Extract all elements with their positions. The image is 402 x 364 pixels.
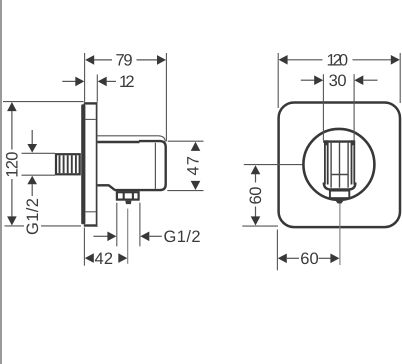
svg-text:30: 30: [329, 72, 347, 90]
svg-text:60: 60: [300, 250, 319, 268]
dimension 47 (vertical): [184, 142, 202, 190]
holder bottom bar: [324, 183, 356, 190]
extension line plate front (12 right): [96, 75, 98, 102]
outlet nut: [117, 192, 139, 200]
thread nipple G1/2: [56, 154, 80, 174]
47 extension lines: [167, 141, 203, 190]
G1/2 left dimension arrows: [27, 130, 37, 196]
extension line 79 right: [165, 53, 167, 142]
holder body bottom chamfer: [109, 185, 115, 190]
dimension 120 (right view): [279, 52, 400, 70]
svg-text:42: 42: [95, 250, 114, 268]
label 120 (rotated): [4, 150, 22, 180]
dimension 120 vertical line: [7, 102, 17, 226]
60 left extension lines: [242, 165, 302, 227]
svg-text:G1/2: G1/2: [24, 198, 42, 235]
dimension 79: [85, 52, 166, 70]
holder end cap inner line: [154, 143, 156, 189]
42 extension line from wall face: [83, 228, 85, 266]
wall plate inner lines: [85, 119, 95, 211]
holder centerline: [339, 204, 341, 265]
svg-text:120: 120: [327, 52, 349, 70]
holder body thin top outline: [98, 136, 166, 142]
dimension 42: [85, 250, 128, 268]
extension line plate top to 120 dim: [3, 101, 84, 103]
wall plate outline (side): [84, 102, 98, 227]
label G1/2 left (rotated): [24, 197, 42, 236]
outlet spigot nub: [125, 201, 131, 205]
dimension 30: [301, 72, 378, 90]
svg-text:G1/2: G1/2: [164, 228, 201, 246]
svg-text:60: 60: [247, 187, 265, 205]
wall plate back band: [81, 104, 85, 224]
60 bottom extension line: [276, 230, 278, 271]
page left border: [0, 0, 2, 364]
svg-text:79: 79: [116, 52, 133, 70]
holder body bottom near plate: [98, 184, 110, 186]
G1/2 right dimension: [93, 228, 200, 246]
thread nipple extension lines: [22, 153, 56, 175]
holder end cap: [115, 141, 166, 190]
extension line plate bottom to 120 dim: [5, 225, 82, 227]
outlet G1/2 extension lines: [117, 203, 140, 247]
holder body top edge: [98, 141, 140, 144]
dimension 12: [62, 73, 134, 91]
holder pedestal: [329, 191, 350, 199]
outlet centerline: [127, 209, 129, 264]
extension line wall face (79/12 left): [84, 53, 86, 102]
holder top bar: [323, 140, 355, 142]
escutcheon square: [279, 103, 400, 228]
holder mid line: [331, 174, 348, 176]
30 extension lines: [323, 74, 354, 140]
svg-text:47: 47: [184, 156, 202, 176]
dimension 60 bottom: [278, 250, 340, 268]
holder inner columns: [331, 143, 348, 188]
svg-text:120: 120: [4, 152, 22, 178]
holder nub: [335, 200, 344, 204]
holder left rail: [324, 140, 328, 184]
pivot circle: [303, 129, 374, 200]
svg-text:12: 12: [119, 73, 135, 91]
120 extension lines: [278, 53, 400, 108]
holder right rail: [351, 140, 355, 184]
dimension 60 left (vertical): [247, 165, 265, 225]
